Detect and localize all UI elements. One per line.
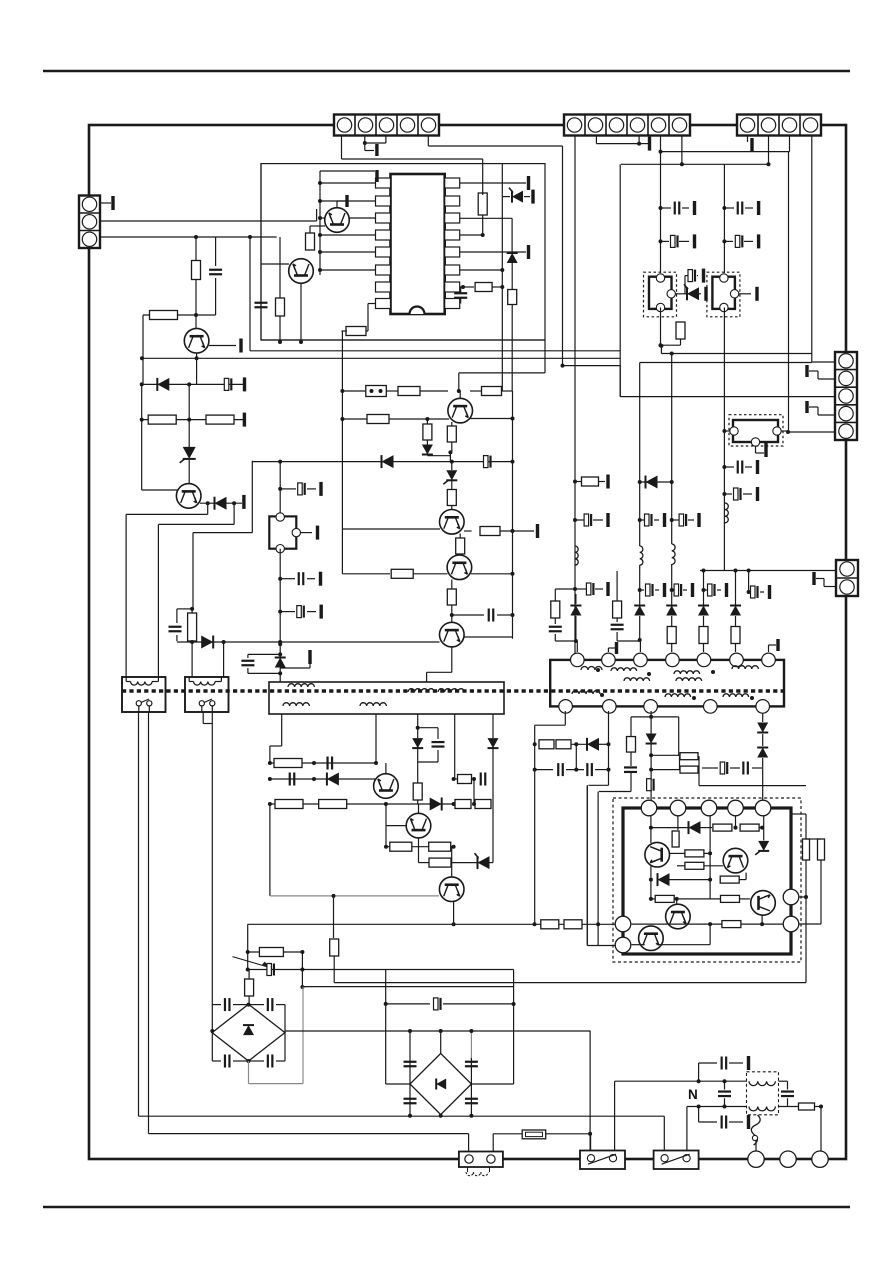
- svg-text:N: N: [688, 1087, 698, 1102]
